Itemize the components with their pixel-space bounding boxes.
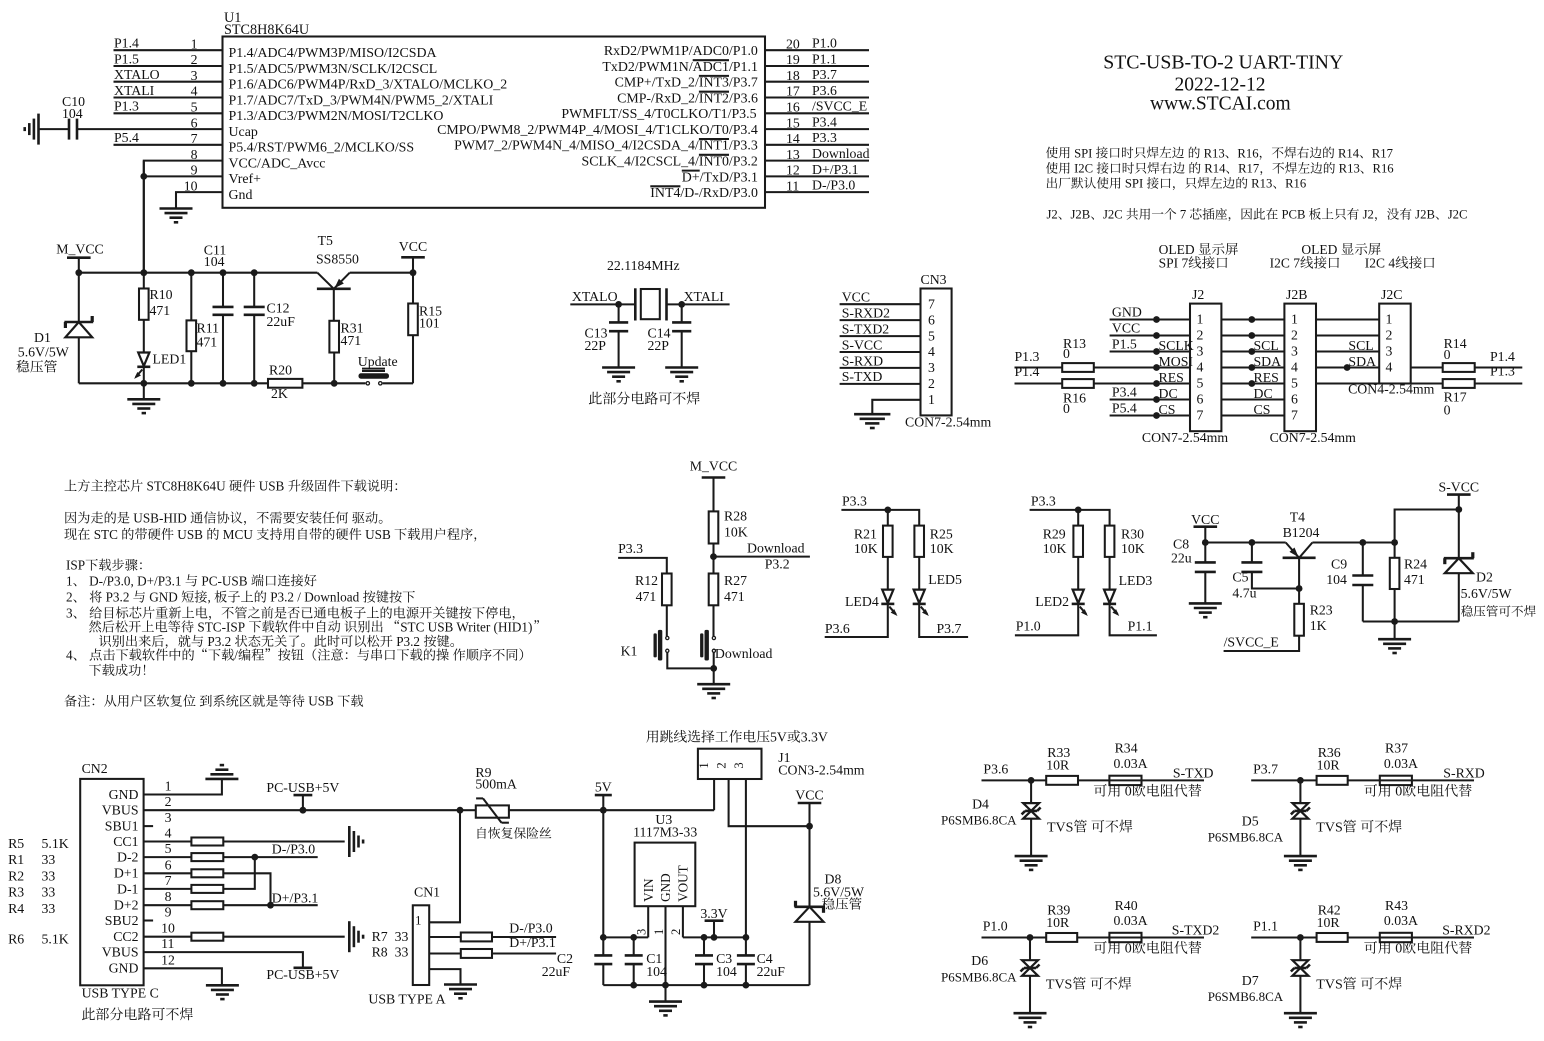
wire R42 to R43 xyxy=(1348,936,1380,938)
svg-text:P3.3: P3.3 xyxy=(1031,494,1056,509)
svg-text:CON7-2.54mm: CON7-2.54mm xyxy=(1270,430,1356,445)
svg-text:4: 4 xyxy=(928,344,935,359)
svg-text:16: 16 xyxy=(786,100,800,115)
svg-text:R37: R37 xyxy=(1385,741,1408,756)
svg-text:P3.4: P3.4 xyxy=(1112,384,1137,399)
pushbutton K1 xyxy=(666,605,668,636)
svg-text:104: 104 xyxy=(716,964,737,979)
wire XTALI xyxy=(667,303,730,305)
CN3 pin 4 (S-VCC) xyxy=(840,351,921,353)
svg-text:2: 2 xyxy=(1386,327,1393,342)
svg-text:1K: 1K xyxy=(1310,618,1327,633)
svg-text:471: 471 xyxy=(197,335,218,350)
svg-text:P3.2: P3.2 xyxy=(393,634,423,649)
svg-text:2: 2 xyxy=(669,929,683,935)
svg-text:B1204: B1204 xyxy=(1283,525,1320,540)
svg-text:I2C 4: I2C 4 xyxy=(1365,256,1396,271)
capacitor C8 22u xyxy=(1204,543,1206,563)
svg-text:5.6V/5W: 5.6V/5W xyxy=(1461,586,1512,601)
svg-text:J2C: J2C xyxy=(1381,287,1402,302)
capacitor C3 104 xyxy=(703,937,705,955)
svg-text:11: 11 xyxy=(786,178,799,193)
svg-text:P1.5: P1.5 xyxy=(1112,336,1137,351)
svg-text:22uF: 22uF xyxy=(757,964,786,979)
svg-text:T4: T4 xyxy=(1290,510,1305,525)
U1 pin 5 (P1.3) xyxy=(114,112,223,114)
svg-text:S-TXD: S-TXD xyxy=(842,369,883,384)
resistor R30 10K xyxy=(1105,526,1115,557)
wire J1 pin3 down xyxy=(745,779,747,937)
svg-text:R4: R4 xyxy=(8,901,24,916)
connector CN3 CON7-2.54mm xyxy=(921,289,952,416)
svg-text:33: 33 xyxy=(42,852,56,867)
svg-text:R20: R20 xyxy=(269,363,292,378)
note text (0 ohm substitute) xyxy=(1094,784,1107,797)
svg-text:I2C 7: I2C 7 xyxy=(1270,256,1301,271)
svg-text:15: 15 xyxy=(786,115,800,130)
svg-text:0: 0 xyxy=(1444,347,1451,362)
svg-text:CS: CS xyxy=(1254,402,1271,417)
svg-text:P5.4: P5.4 xyxy=(114,130,139,145)
svg-text:D-/P3.0: D-/P3.0 xyxy=(509,920,552,935)
U1 pin 7 (P5.4) xyxy=(114,144,223,146)
svg-text:1: 1 xyxy=(697,762,711,768)
svg-text:13: 13 xyxy=(786,147,800,162)
CN1 pin4 wire to ground xyxy=(429,969,460,984)
LED LED3 xyxy=(1109,557,1111,590)
U1 pin 1 (P1.4) xyxy=(114,49,223,51)
svg-text:P1.4/ADC4/PWM3P/MISO/I2CSDA: P1.4/ADC4/PWM3P/MISO/I2CSDA xyxy=(229,46,437,61)
svg-text:5: 5 xyxy=(1291,375,1298,390)
svg-text:SPI: SPI xyxy=(1122,177,1147,191)
svg-text:P1.7/ADC7/TxD_3/PWM4N/PWM5_2/X: P1.7/ADC7/TxD_3/PWM4N/PWM5_2/XTALI xyxy=(229,93,494,108)
svg-text:7: 7 xyxy=(928,296,935,311)
svg-text:S-VCC: S-VCC xyxy=(1439,480,1480,495)
fuse R37 0.03A xyxy=(1380,776,1412,785)
svg-text:1117M3-33: 1117M3-33 xyxy=(633,825,697,840)
svg-text:500mA: 500mA xyxy=(475,777,516,792)
note text USB download instructions xyxy=(65,480,77,491)
svg-text:CS: CS xyxy=(1159,402,1176,417)
svg-text:104: 104 xyxy=(1326,572,1347,587)
svg-text:D2: D2 xyxy=(1476,570,1493,585)
fuse R40 0.03A xyxy=(1109,933,1141,942)
wire P3.6 to R33 xyxy=(982,779,1047,781)
svg-text:CON4-2.54mm: CON4-2.54mm xyxy=(1348,382,1434,397)
resistor R28 10K xyxy=(709,511,719,543)
svg-text:10: 10 xyxy=(161,921,175,936)
svg-text:Download: Download xyxy=(747,540,805,555)
connector CN2 USB TYPE C xyxy=(80,779,143,985)
U1 pin 20 (P1.0) xyxy=(765,49,869,51)
svg-text:PC-USB: PC-USB xyxy=(198,573,251,588)
U1 pin 11 (D-/P3.0) xyxy=(765,191,869,193)
svg-text:6: 6 xyxy=(1291,391,1298,406)
svg-text:0: 0 xyxy=(1121,942,1132,957)
wire bottom rail (D1-R20) xyxy=(79,382,268,384)
svg-text:S-TXD2: S-TXD2 xyxy=(1172,922,1220,937)
resistor R25 10K xyxy=(914,526,924,557)
J2C pin 3 wire xyxy=(1316,350,1379,352)
node Download/P3.2 xyxy=(712,544,714,573)
wire R33 to R34 xyxy=(1078,779,1109,781)
svg-text:12: 12 xyxy=(786,163,800,178)
svg-text:5: 5 xyxy=(928,328,935,343)
svg-text:J2: J2 xyxy=(1192,287,1204,302)
svg-text:LED3: LED3 xyxy=(1119,573,1153,588)
svg-text:GND: GND xyxy=(109,961,139,976)
connector J2 CON7-2.54mm xyxy=(1190,304,1221,432)
ground (U1 Gnd pin) xyxy=(160,207,193,210)
wire P3.7 to R36 xyxy=(1251,779,1316,781)
resistor R33 10R xyxy=(1046,776,1078,785)
resistor R7 33 (D-) xyxy=(429,936,461,938)
svg-text:10R: 10R xyxy=(1046,758,1070,773)
svg-text:D+/P3.1: D+/P3.1 xyxy=(812,162,859,177)
svg-text:P5.4/RST/PWM6_2/MCLKO/SS: P5.4/RST/PWM6_2/MCLKO/SS xyxy=(229,141,415,156)
svg-text:XTALI: XTALI xyxy=(684,289,725,304)
svg-text:33: 33 xyxy=(42,885,56,900)
svg-text:,: , xyxy=(208,590,215,605)
svg-text:P6SMB6.8CA: P6SMB6.8CA xyxy=(1208,989,1284,1004)
svg-text:TxD2/PWM1N/ADC1/P1.1: TxD2/PWM1N/ADC1/P1.1 xyxy=(602,60,758,75)
svg-text:R16: R16 xyxy=(1373,162,1394,176)
wire VBUS to CN1 pin1 xyxy=(429,810,460,922)
TVS diode D4 P6SMB6.8CA xyxy=(1030,780,1032,803)
svg-text:R40: R40 xyxy=(1115,898,1138,913)
svg-text:PWMFLT/SS_4/T0CLKO/T1/P3.5: PWMFLT/SS_4/T0CLKO/T1/P3.5 xyxy=(561,107,756,122)
svg-text:TVS: TVS xyxy=(1316,820,1342,835)
wire cap rail right xyxy=(683,936,746,938)
svg-text:R23: R23 xyxy=(1310,603,1333,618)
svg-text:6: 6 xyxy=(928,312,935,327)
svg-text:P3.2: P3.2 xyxy=(765,557,790,572)
svg-text:SCL: SCL xyxy=(1254,338,1279,353)
svg-text:INT4/D-/RxD/P3.0: INT4/D-/RxD/P3.0 xyxy=(650,186,758,201)
svg-text:GND: GND xyxy=(146,590,181,605)
svg-text:0: 0 xyxy=(1063,346,1070,361)
svg-text:0: 0 xyxy=(1444,402,1451,417)
svg-text:DC: DC xyxy=(1254,386,1273,401)
svg-text:D+2: D+2 xyxy=(114,898,139,913)
note text (fuse) xyxy=(478,827,486,839)
CN2 pin1 wire to ground xyxy=(144,779,222,795)
svg-text:R30: R30 xyxy=(1121,526,1144,541)
CN3 pin 2 (S-TXD) xyxy=(840,383,921,385)
svg-text:Gnd: Gnd xyxy=(229,188,253,203)
U1 pin 17 (P3.6) xyxy=(765,96,869,98)
TVS diode D5 P6SMB6.8CA xyxy=(1299,780,1301,803)
svg-text:R6: R6 xyxy=(8,932,24,947)
wire M_VCC top rail xyxy=(79,272,318,274)
svg-text:P1.4: P1.4 xyxy=(1015,364,1040,379)
resistor R12 471 xyxy=(662,574,672,606)
svg-text:3: 3 xyxy=(191,68,198,83)
svg-text:CMPO/PWM8_2/PWM4P_4/MOSI_4/T1C: CMPO/PWM8_2/PWM4P_4/MOSI_4/T1CLKO/T0/P3.… xyxy=(437,123,758,138)
svg-text:SDA: SDA xyxy=(1254,354,1282,369)
svg-text:P3.4: P3.4 xyxy=(812,115,837,130)
svg-text:0: 0 xyxy=(1392,785,1403,800)
CN2 pin11 wire to PC-USB+5V xyxy=(144,952,303,968)
svg-text:R12: R12 xyxy=(635,573,658,588)
svg-text:USB: USB xyxy=(305,694,337,709)
capacitor C12 22uF xyxy=(253,273,255,307)
svg-text:D4: D4 xyxy=(972,797,989,812)
wire XTALO xyxy=(570,303,635,305)
svg-text:22uF: 22uF xyxy=(267,314,296,329)
capacitor C1 104 xyxy=(633,937,635,955)
wire J1 pin1 to 5V rail xyxy=(713,779,715,810)
J2C pin 1 wire xyxy=(1316,318,1379,320)
svg-text:P1.3: P1.3 xyxy=(114,99,139,114)
svg-text:D-/P3.0: D-/P3.0 xyxy=(812,178,855,193)
J2B pin 3 wire xyxy=(1221,350,1284,352)
svg-text:R2: R2 xyxy=(8,868,24,883)
svg-text:SPI 7: SPI 7 xyxy=(1159,256,1189,271)
svg-text:C8: C8 xyxy=(1173,537,1189,552)
svg-text:P6SMB6.8CA: P6SMB6.8CA xyxy=(941,969,1017,984)
svg-text:2: 2 xyxy=(191,52,198,67)
J2B pin 1 wire xyxy=(1221,318,1284,320)
zener diode D2 5.6V/5W xyxy=(1458,510,1460,559)
svg-text:10K: 10K xyxy=(1121,541,1145,556)
svg-text:P1.5: P1.5 xyxy=(114,51,139,66)
svg-text:P3.3: P3.3 xyxy=(812,130,837,145)
svg-text:PCB: PCB xyxy=(1278,208,1308,222)
svg-text:R27: R27 xyxy=(724,573,747,588)
svg-text:471: 471 xyxy=(1404,572,1425,587)
svg-text:7: 7 xyxy=(1177,208,1190,222)
svg-text:5.6V/5W: 5.6V/5W xyxy=(813,884,864,899)
svg-text:P1.0: P1.0 xyxy=(812,36,837,51)
svg-text:0.03A: 0.03A xyxy=(1384,913,1418,928)
ground (U3) xyxy=(664,985,666,1002)
LED LED1 xyxy=(138,353,149,367)
U1 pin 19 (P1.1) xyxy=(765,65,869,67)
svg-text:5: 5 xyxy=(165,841,172,856)
wire T5 emitter to VCC xyxy=(350,272,413,274)
svg-text:ISP: ISP xyxy=(66,558,85,573)
wire S-GND rail xyxy=(1363,620,1459,622)
svg-text:104: 104 xyxy=(204,254,225,269)
note text (crystal optional) xyxy=(589,392,602,405)
svg-text:4: 4 xyxy=(66,648,73,663)
J2 pin 4 wire xyxy=(1153,364,1160,371)
wire R43 to S-RXD2 xyxy=(1412,936,1474,938)
J2C pin 2 wire xyxy=(1316,334,1379,336)
svg-text:P6SMB6.8CA: P6SMB6.8CA xyxy=(1208,830,1284,845)
svg-text:471: 471 xyxy=(150,303,171,318)
svg-text:1: 1 xyxy=(415,913,421,927)
pushbutton Download xyxy=(712,605,714,637)
svg-text:0.03A: 0.03A xyxy=(1384,756,1418,771)
ground (download buttons) xyxy=(697,683,730,686)
svg-text:CMP-/RxD_2/INT2/P3.6: CMP-/RxD_2/INT2/P3.6 xyxy=(617,91,758,106)
svg-text:6: 6 xyxy=(165,857,172,872)
svg-text:D-/P3.0: D-/P3.0 xyxy=(272,841,315,856)
svg-text:LED5: LED5 xyxy=(928,572,962,587)
svg-text:R16: R16 xyxy=(1285,177,1306,191)
svg-text:CN2: CN2 xyxy=(82,761,108,776)
J2 pin 5 wire xyxy=(1153,380,1160,387)
resistor R20 2K xyxy=(268,379,302,388)
svg-text:P3.6: P3.6 xyxy=(825,621,850,636)
svg-text:Update: Update xyxy=(358,354,398,369)
ground (T4 block) xyxy=(1394,622,1396,640)
J2B pin 5 wire xyxy=(1221,382,1284,384)
svg-text:GND: GND xyxy=(658,873,673,902)
svg-text:10: 10 xyxy=(184,178,198,193)
IC U1 STC8H8K64U xyxy=(223,37,766,208)
svg-text:4.7u: 4.7u xyxy=(1232,586,1256,601)
svg-text:22uF: 22uF xyxy=(542,964,571,979)
svg-text:CC1: CC1 xyxy=(113,834,138,849)
svg-text:10K: 10K xyxy=(930,541,954,556)
J2 pin 1 wire xyxy=(1110,318,1190,320)
wire P3.3 to R12 xyxy=(618,558,667,574)
ground (CN2 pin12) xyxy=(206,984,239,987)
svg-text:R14: R14 xyxy=(1201,162,1226,176)
svg-text:R13: R13 xyxy=(1336,162,1360,176)
svg-text:D5: D5 xyxy=(1242,814,1259,829)
svg-text:33: 33 xyxy=(42,868,56,883)
regulator U3 1117M3-33 xyxy=(635,843,696,907)
zener diode D1 5.6V/5W xyxy=(78,273,80,322)
svg-text:P1.1: P1.1 xyxy=(1253,919,1278,934)
svg-text:J2B: J2B xyxy=(1412,208,1435,222)
svg-text:STC: STC xyxy=(90,527,121,542)
svg-text:R8 33: R8 33 xyxy=(372,945,409,960)
U1 pin 10 (Gnd) xyxy=(176,192,223,208)
svg-text:P3.3: P3.3 xyxy=(842,494,867,509)
resistor R39 10R xyxy=(1046,933,1077,942)
svg-text:XTALO: XTALO xyxy=(114,67,160,82)
svg-text:XTALO: XTALO xyxy=(572,289,618,304)
svg-text:S-RXD2: S-RXD2 xyxy=(842,306,890,321)
svg-text:9: 9 xyxy=(191,163,198,178)
svg-text:2: 2 xyxy=(1197,327,1204,342)
svg-text:I2C: I2C xyxy=(1071,162,1096,176)
svg-text:5.6V/5W: 5.6V/5W xyxy=(18,345,69,360)
svg-text:20: 20 xyxy=(786,36,800,51)
resistor R3 (D-1) xyxy=(144,888,192,890)
svg-text:P3.3: P3.3 xyxy=(618,541,643,556)
ground (CN2 pin1, flipped) xyxy=(205,778,238,781)
LED LED4 xyxy=(887,557,889,590)
ground (D5) xyxy=(1284,855,1317,858)
svg-text:12: 12 xyxy=(161,952,175,967)
connector J1 CON3-2.54mm xyxy=(698,749,762,779)
resistor R17 0 xyxy=(1443,379,1475,388)
svg-text:R16: R16 xyxy=(1237,146,1258,160)
svg-text:0: 0 xyxy=(1392,942,1403,957)
svg-text:8: 8 xyxy=(191,147,198,162)
resistor R36 10R xyxy=(1317,776,1348,785)
fuse R43 0.03A xyxy=(1380,933,1412,942)
svg-text:P1.1: P1.1 xyxy=(812,51,837,66)
svg-text:3: 3 xyxy=(1291,343,1298,358)
svg-text:R28: R28 xyxy=(724,508,747,523)
wire P1.0 to R39 xyxy=(982,936,1047,938)
capacitor C11 104 xyxy=(222,273,224,307)
resistor R21 10K xyxy=(887,510,889,526)
svg-text:7: 7 xyxy=(1197,407,1204,422)
LED LED2 xyxy=(1077,557,1079,590)
svg-text:P5.4: P5.4 xyxy=(1112,400,1137,415)
svg-text:STC USB Writer (HID1): STC USB Writer (HID1) xyxy=(400,619,532,634)
svg-text:8: 8 xyxy=(165,889,172,904)
svg-text:OLED: OLED xyxy=(1301,242,1340,257)
wire LED4 to P3.6 xyxy=(825,604,888,637)
svg-text:S-RXD: S-RXD xyxy=(1443,765,1484,780)
U1 pin 8 (VCC) xyxy=(144,161,223,273)
capacitor C5 4.7u xyxy=(1251,543,1253,563)
svg-text:TVS: TVS xyxy=(1047,820,1073,835)
svg-text:J2: J2 xyxy=(1047,208,1058,222)
svg-text:1: 1 xyxy=(1197,311,1204,326)
svg-text:PWM7_2/PWM4N_4/MISO_4/I2CSDA_4: PWM7_2/PWM4N_4/MISO_4/I2CSDA_4/INT1/P3.3 xyxy=(454,139,758,154)
svg-text:VCC/ADC_Avcc: VCC/ADC_Avcc xyxy=(229,156,326,171)
resistor R8 33 (D+) xyxy=(429,952,461,954)
svg-text:J2: J2 xyxy=(1359,208,1373,222)
svg-text:4: 4 xyxy=(191,84,198,99)
svg-text:VIN: VIN xyxy=(641,878,656,902)
svg-text:P1.0: P1.0 xyxy=(983,919,1008,934)
svg-text:18: 18 xyxy=(786,68,800,83)
svg-text:J2C: J2C xyxy=(1103,208,1126,222)
svg-text:P3.7: P3.7 xyxy=(812,67,837,82)
svg-text:SDA: SDA xyxy=(1348,354,1376,369)
note text (0 ohm substitute) xyxy=(1094,941,1107,954)
svg-text:www.STCAI.com: www.STCAI.com xyxy=(1150,93,1291,114)
note text (jumper selects 5V/3.3V) xyxy=(646,730,658,742)
svg-text:R13: R13 xyxy=(1248,177,1272,191)
wire LED5 to P3.7 xyxy=(919,604,968,637)
note text (CN2 optional) xyxy=(82,1008,95,1021)
svg-text:471: 471 xyxy=(724,589,745,604)
svg-text:2: 2 xyxy=(928,376,935,391)
svg-text:VOUT: VOUT xyxy=(676,865,691,902)
svg-text:R5: R5 xyxy=(8,836,24,851)
svg-text:P1.3/ADC3/PWM2N/MOSI/T2CLKO: P1.3/ADC3/PWM2N/MOSI/T2CLKO xyxy=(229,109,444,124)
svg-text:10R: 10R xyxy=(1046,915,1070,930)
svg-text:CN1: CN1 xyxy=(414,885,440,900)
U1 pin 16 (/SVCC_E) xyxy=(765,112,869,114)
svg-text:P3.7: P3.7 xyxy=(1253,762,1278,777)
svg-text:P1.4: P1.4 xyxy=(114,36,139,51)
resistor R27 471 xyxy=(709,574,719,606)
resistor R5 (CC1) xyxy=(144,840,192,842)
svg-text:P1.6/ADC6/PWM4P/RxD_3/XTALO/MC: P1.6/ADC6/PWM4P/RxD_3/XTALO/MCLKO_2 xyxy=(229,78,508,93)
svg-text:14: 14 xyxy=(786,131,800,146)
J2B pin 6 wire xyxy=(1221,398,1284,400)
wire R36 to R37 xyxy=(1348,779,1380,781)
svg-text:USB: USB xyxy=(174,527,206,542)
svg-text:R34: R34 xyxy=(1115,741,1138,756)
svg-text:3: 3 xyxy=(928,360,935,375)
svg-text:USB: USB xyxy=(362,527,394,542)
U1 pin 4 (P1.7) xyxy=(114,96,223,98)
ground (CN1) xyxy=(444,983,477,986)
wire J1 pin2 to VCC xyxy=(729,779,810,826)
svg-text:2: 2 xyxy=(1291,327,1298,342)
capacitor C9 104 xyxy=(1362,543,1364,576)
svg-text:471: 471 xyxy=(341,333,362,348)
U1 pin 15 (P3.4) xyxy=(765,128,869,130)
CN3 pin 3 (S-RXD) xyxy=(840,367,921,369)
svg-text:P1.3: P1.3 xyxy=(1490,363,1515,378)
J2B pin 4 wire xyxy=(1221,366,1284,368)
